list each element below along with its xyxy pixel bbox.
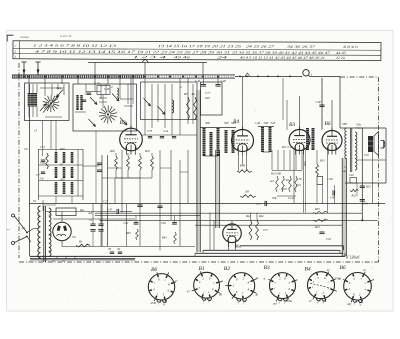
svg-text:4 7 8 9 10 11 12 13 14 15 16 1: 4 7 8 9 10 11 12 13 14 15 16 17 [35,50,136,54]
svg-text:Л1: Л1 [51,259,56,263]
svg-text:S3: S3 [49,233,53,237]
svg-text:50б: 50б [224,121,229,125]
svg-text:28 29 30 31: 28 29 30 31 [343,45,358,49]
svg-text:С48: С48 [328,177,334,181]
svg-text:R13,56Б: R13,56Б [270,172,281,176]
svg-text:S4: S4 [49,249,53,253]
svg-text:В3: В3 [289,122,295,128]
svg-text:С27: С27 [103,199,109,203]
svg-text:33 34 35 36 37 38 39 40 41 42: 33 34 35 36 37 38 39 40 41 42 43 44 45 4… [232,51,330,55]
svg-text:З.14А: З.14А [288,197,295,200]
svg-text:R4б: R4б [109,149,115,153]
svg-text:С5б: С5б [40,161,45,165]
svg-text:53о: 53о [356,123,361,127]
svg-text:R1: R1 [78,240,83,244]
svg-text:С47: С47 [107,208,113,212]
svg-text:50б: 50б [264,121,269,125]
svg-text:С7: С7 [36,173,40,177]
svg-text:R31: R31 [319,159,325,163]
svg-text:~: ~ [7,227,10,233]
svg-text:R33: R33 [314,207,320,211]
svg-text:С1а: С1а [56,86,62,90]
svg-text:R1б: R1б [303,161,307,167]
svg-text:С62: С62 [161,221,167,225]
svg-text:С1: С1 [89,218,93,222]
svg-text:13 14 15 16 17 18 19 20 21 23: 13 14 15 16 17 18 19 20 21 23 25 [158,44,242,48]
svg-text:В6: В6 [325,121,331,127]
svg-text:В4: В4 [233,118,239,125]
svg-text:С4б: С4б [255,121,261,125]
svg-text:R22: R22 [351,194,357,198]
svg-text:В2: В2 [224,266,230,272]
svg-text:Л5: Л5 [71,235,76,239]
svg-text:С4б: С4б [349,174,354,177]
svg-text:R10: R10 [281,187,287,191]
svg-text:С37: С37 [263,228,268,232]
svg-text:22 2а: 22 2а [336,56,345,60]
svg-text:С8: С8 [40,177,44,181]
svg-text:R42: R42 [258,214,264,218]
svg-text:1 2 3: 1 2 3 [133,55,157,59]
svg-text:попъqнл: попъqнл [20,36,30,39]
svg-text:15: 15 [34,129,38,133]
svg-text:Л2б: Л2б [204,96,211,100]
svg-text:45 46: 45 46 [174,55,191,59]
svg-text:С18: С18 [297,178,302,181]
svg-text:С6: С6 [24,147,28,151]
svg-text:R29: R29 [365,185,371,189]
svg-text:R63: R63 [125,231,131,235]
svg-text:S5: S5 [33,199,37,203]
svg-text:К 12бмб: К 12бмб [345,256,360,260]
svg-text:С17: С17 [256,202,262,206]
svg-text:56Б: 56Б [272,197,277,200]
svg-text:В3: В3 [264,265,270,271]
svg-text:С24: С24 [163,129,169,133]
svg-text:24 25 26 27: 24 25 26 27 [246,44,275,48]
svg-text:R7: R7 [59,163,64,167]
svg-text:R4: R4 [191,92,196,96]
svg-text:В6: В6 [151,267,157,273]
svg-text:R12 5-14: R12 5-14 [281,145,293,149]
svg-text:52б: 52б [271,121,276,125]
svg-text:С4б: С4б [195,79,201,83]
svg-text:С4Р: С4Р [316,100,322,104]
svg-text:В4: В4 [305,267,311,273]
svg-text:кду: кду [347,302,352,306]
svg-text:С73: С73 [147,129,153,133]
svg-text:19 21 22 23 24 25 26 27 28 29: 19 21 22 23 24 25 26 27 28 29 30 31 [137,50,231,54]
svg-text:44 45: 44 45 [336,51,346,55]
svg-text:34 36 26 37: 34 36 26 37 [287,45,316,49]
svg-text:С4П: С4П [94,82,101,86]
svg-text:Л4: Л4 [116,248,121,251]
svg-text:В2: В2 [120,120,126,126]
svg-text:С45: С45 [326,237,332,241]
svg-text:2: 2 [180,85,182,89]
svg-text:4700: 4700 [150,301,156,305]
svg-text:С19: С19 [296,183,301,187]
svg-text:24: 24 [217,55,228,59]
svg-text:С77: С77 [205,91,211,95]
svg-text:S1: S1 [22,226,26,230]
svg-text:S2: S2 [49,213,53,217]
svg-text:R5б: R5б [59,147,65,151]
svg-text:R23: R23 [314,225,320,229]
svg-text:м: м [262,277,265,281]
svg-text:2р: 2р [343,169,347,173]
svg-text:С4Т: С4Т [104,87,110,91]
svg-text:В6: В6 [340,265,346,271]
svg-text:Лб: Лб [244,190,249,194]
svg-text:гид: гид [273,301,278,305]
svg-text:2: 2 [111,85,113,89]
svg-text:ЛЗ: ЛЗ [107,248,112,251]
svg-text:пз аб вг дв: пз аб вг дв [60,35,72,38]
svg-text:50Р: 50Р [205,121,210,125]
svg-text:С4Р: С4Р [221,79,227,83]
svg-text:R64: R64 [161,236,167,240]
svg-text:1 2 3 4 5 6 7 8 9 10 11 12 13: 1 2 3 4 5 6 7 8 9 10 11 12 13 [33,43,117,47]
svg-text:R3: R3 [183,92,188,96]
svg-text:4к7: 4к7 [270,180,275,183]
svg-text:Л2: Л2 [61,259,66,263]
svg-text:R1б: R1б [144,149,150,153]
svg-text:R14: R14 [285,179,291,182]
svg-text:В1: В1 [199,266,205,272]
svg-text:40 4 5 10 11 12 41 42 43 44 45: 40 4 5 10 11 12 41 42 43 44 45 46 47 48 … [240,56,325,60]
svg-text:С46: С46 [363,202,368,206]
svg-text:51б: 51б [364,153,369,157]
